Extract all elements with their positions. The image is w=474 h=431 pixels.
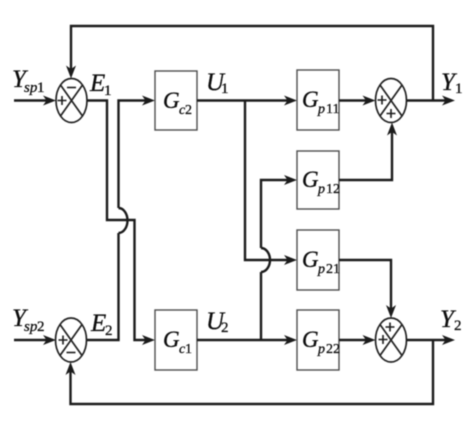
- block Gp21: [297, 230, 339, 290]
- wire feedback bottom: Y2 to S2: [66, 340, 434, 404]
- block Gp22: [297, 310, 339, 370]
- wire Y1 output: [407, 96, 456, 106]
- svg-text:E: E: [90, 310, 106, 337]
- wire Ysp1 input: [14, 96, 56, 106]
- summing junction S1 (left top): [56, 79, 87, 123]
- label Gc1: [163, 327, 192, 357]
- svg-text:2: 2: [185, 103, 192, 118]
- svg-text:p: p: [317, 102, 325, 117]
- svg-text:E: E: [89, 70, 105, 97]
- plus sign on S1 left: [58, 96, 67, 105]
- svg-text:1: 1: [185, 342, 192, 357]
- svg-text:1: 1: [104, 83, 112, 99]
- label Gp12: [302, 167, 340, 197]
- svg-text:2: 2: [454, 318, 462, 334]
- svg-text:2: 2: [37, 319, 45, 335]
- wire feedback top: Y1 to S1: [66, 26, 433, 101]
- minus sign on S2 bottom: [67, 352, 76, 354]
- svg-text:G: G: [302, 247, 319, 272]
- wire U1: Gc2 to Gp11: [197, 96, 297, 106]
- svg-text:2: 2: [105, 323, 113, 339]
- plus sign on S4 top: [386, 323, 395, 332]
- svg-text:G: G: [302, 87, 319, 112]
- wire U1 branch to Gp21: [245, 101, 297, 266]
- svg-text:sp: sp: [24, 80, 38, 96]
- wire Gp21 output down to S4 top: [339, 260, 396, 318]
- wire Gp22 output to S4: [339, 335, 376, 345]
- svg-text:p: p: [317, 182, 325, 197]
- svg-text:21: 21: [326, 262, 340, 277]
- wire Gp11 output to S3: [339, 96, 376, 106]
- wire E1: S1 to Gc1 (down, jog right, down): [87, 101, 155, 346]
- svg-text:12: 12: [326, 182, 340, 197]
- label Gp21: [302, 247, 340, 277]
- label Ysp2: [12, 305, 45, 335]
- wire Y2 output: [407, 335, 456, 345]
- block Gc2: [155, 71, 197, 130]
- wire Gp12 output up to S3 bottom: [339, 123, 397, 181]
- block Gp12: [297, 151, 339, 209]
- summing junction S3 (right top): [376, 79, 407, 123]
- svg-text:G: G: [302, 327, 319, 352]
- svg-text:1: 1: [37, 80, 45, 96]
- wire Ysp2 input: [14, 335, 56, 345]
- label Gp11: [302, 87, 339, 117]
- svg-text:1: 1: [221, 81, 229, 97]
- summing junction S4 (right bottom): [376, 318, 407, 362]
- svg-text:22: 22: [326, 342, 340, 357]
- block Gc1: [155, 310, 197, 370]
- svg-text:11: 11: [326, 102, 339, 117]
- plus sign on S3 left: [378, 96, 387, 105]
- svg-text:G: G: [302, 167, 319, 192]
- label Gc2: [163, 88, 192, 118]
- minus sign on S1 top: [67, 87, 76, 89]
- summing junction S2 (left bottom): [56, 318, 87, 362]
- svg-text:G: G: [163, 327, 180, 352]
- svg-text:sp: sp: [24, 319, 38, 335]
- wire E2: S2 to Gc2 (up with crossover hump): [87, 96, 155, 341]
- plus sign on S3 bottom: [387, 109, 396, 118]
- block Gp11: [297, 70, 339, 130]
- label Ysp1: [12, 66, 45, 96]
- plus sign on S4 left: [379, 335, 388, 344]
- svg-text:1: 1: [455, 81, 463, 97]
- plus sign on S2 left: [59, 336, 68, 345]
- svg-text:2: 2: [221, 320, 229, 336]
- svg-text:G: G: [163, 88, 180, 113]
- svg-text:p: p: [317, 262, 325, 277]
- svg-text:p: p: [317, 342, 325, 357]
- wire U2: Gc1 to Gp22: [197, 335, 297, 345]
- wire U2 branch to Gp12 (up with crossover hump): [261, 175, 297, 340]
- label Gp22: [302, 327, 340, 357]
